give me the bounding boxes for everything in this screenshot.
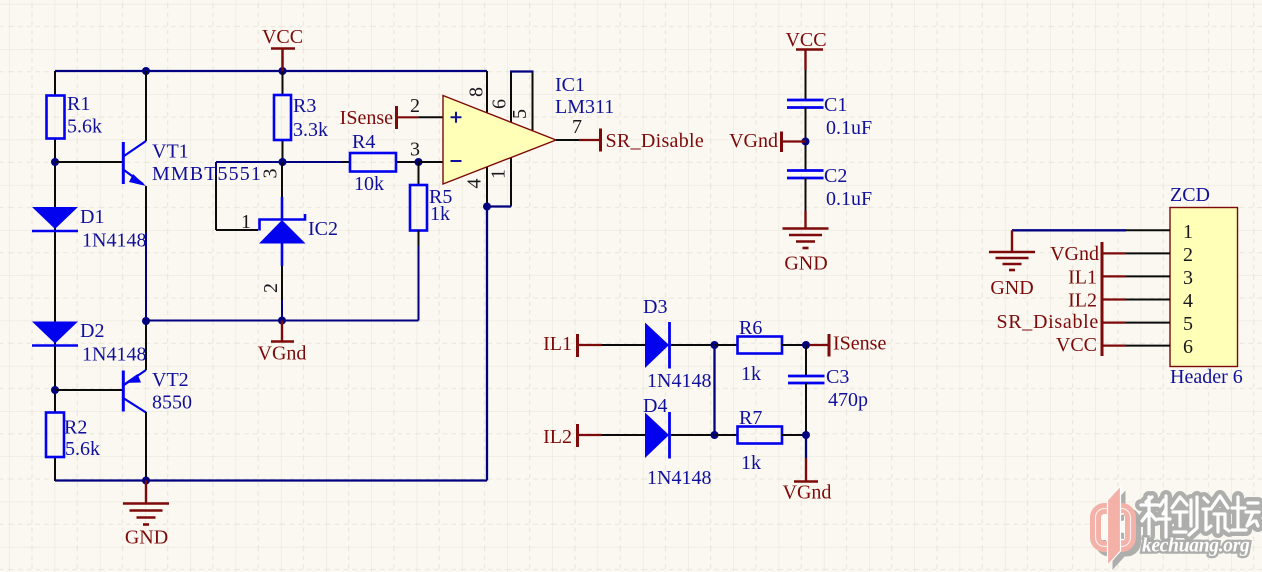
svg-text:8550: 8550 [152,392,192,414]
resistor R1 [47,93,103,139]
svg-text:5.6k: 5.6k [67,116,102,138]
watermark text kechuang forum [1141,496,1259,537]
node junction C1/C2/VGnd [802,138,810,146]
svg-text:R4: R4 [352,131,375,153]
svg-text:SR_Disable: SR_Disable [606,130,705,152]
svg-text:VCC: VCC [785,29,826,51]
diode D4 [602,395,715,489]
svg-text:R2: R2 [64,417,87,439]
node junction VT emitters row [142,317,150,325]
node junction R1/D1/VT1 base [51,158,59,166]
net label ISense (op-amp +) [340,106,419,129]
wire header pin1 to GND [1012,229,1126,231]
header net stubs [1104,253,1127,345]
wire bottom GND rail [55,479,487,481]
svg-text:8: 8 [466,87,488,97]
node junction R3/IC2/R4 [279,158,287,166]
transistor VT2 [55,321,192,481]
svg-text:1k: 1k [741,452,761,474]
node junction IC2 anode [278,317,286,325]
svg-text:ZCD: ZCD [1170,184,1210,206]
svg-text:5: 5 [509,109,531,119]
svg-text:kechuang.org: kechuang.org [1142,536,1250,557]
wire left column [54,71,56,481]
connector ZCD header box [1170,184,1243,388]
svg-text:2: 2 [260,283,282,293]
svg-text:GND: GND [990,277,1033,299]
op-amp IC1 triangle [443,74,614,189]
diode D2 [32,320,146,366]
node junction D4/R7 [711,431,719,439]
svg-text:IL2: IL2 [543,426,572,448]
svg-text:3.3k: 3.3k [293,119,328,141]
net label SR_Disable [579,129,704,153]
resistor R3 [274,71,328,162]
IC2 TL431 [241,162,338,321]
svg-text:VGnd: VGnd [729,130,778,152]
svg-text:ISense: ISense [340,107,393,129]
node junction top rail VT1 [142,67,150,75]
svg-text:C3: C3 [826,366,849,388]
svg-text:0.1uF: 0.1uF [826,188,872,210]
ground GND (left) [123,481,169,549]
svg-text:VGnd: VGnd [783,482,832,504]
svg-text:1k: 1k [430,203,450,225]
net label VGnd (middle) [729,130,805,152]
svg-text:2: 2 [410,95,420,117]
svg-text:C1: C1 [824,94,847,116]
svg-text:D4: D4 [643,395,667,417]
svg-text:IC1: IC1 [555,74,585,96]
svg-text:R1: R1 [67,93,90,115]
svg-text:VCC: VCC [1056,334,1097,356]
op-amp pins bottom [487,156,511,207]
resistor R5 [410,162,452,246]
wire to inverting input [419,161,444,163]
wire to non-inverting input [418,116,443,118]
svg-text:D1: D1 [80,206,104,228]
svg-text:3: 3 [260,169,282,179]
op-amp pins top [487,71,534,133]
wire op-amp gnd down to rail [486,207,488,481]
op-amp output pin 7 [556,116,582,140]
wire C1 to node [805,108,807,171]
svg-text:IL2: IL2 [1068,290,1097,312]
svg-text:D3: D3 [643,296,667,318]
watermark logo kechuang [1096,486,1136,570]
svg-text:R7: R7 [739,407,762,429]
svg-text:2: 2 [1183,244,1193,266]
resistor R6 [715,317,807,385]
resistor R4 [342,131,419,195]
wire D3 node to D4 node [713,345,715,435]
ground GND (right) [783,211,829,275]
svg-text:470p: 470p [828,389,868,411]
diode D3 [602,296,715,392]
svg-text:4: 4 [464,179,486,189]
node junction top rail VCC/R3 [279,67,287,75]
svg-text:10k: 10k [354,173,384,195]
wire C2 to GND [805,178,807,211]
svg-text:D2: D2 [80,320,104,342]
svg-text:1N4148: 1N4148 [82,230,146,252]
svg-text:VCC: VCC [262,26,303,48]
svg-text:VT1: VT1 [152,141,189,163]
power port VCC (right) [785,29,826,70]
ground GND (header) [989,230,1035,299]
svg-text:IL1: IL1 [543,333,572,355]
svg-text:1N4148: 1N4148 [647,370,711,392]
diode D1 [32,206,146,252]
capacitor C3 [788,345,868,435]
svg-text:VT2: VT2 [152,369,189,391]
svg-text:C2: C2 [824,165,847,187]
svg-text:6: 6 [489,99,511,109]
wire node3 to R4 [216,162,342,230]
node junction R4/R5/op-amp inverting [415,158,423,166]
svg-text:R3: R3 [293,95,316,117]
svg-text:1N4148: 1N4148 [82,344,146,366]
svg-text:4: 4 [1183,290,1193,312]
svg-text:1k: 1k [741,363,761,385]
power port VGnd (under IC2) [258,321,307,365]
wire VT1 emitter down [145,232,147,321]
svg-text:GND: GND [125,527,168,549]
svg-text:Header 6: Header 6 [1170,366,1243,388]
net label ISense (right) [810,333,886,357]
svg-text:6: 6 [1183,336,1193,358]
svg-text:IC2: IC2 [308,218,338,240]
wire top VCC rail [55,70,487,72]
svg-text:VGnd: VGnd [258,343,307,365]
wire VCC to C1 [805,70,807,99]
svg-text:1: 1 [1183,221,1193,243]
node junction R6/C3/ISense [802,341,810,349]
header pin wires [1126,230,1170,345]
svg-text:IL1: IL1 [1068,267,1097,289]
node junction op-amp gnd [483,203,491,211]
net label IL2 [543,424,601,448]
node junction R7/C3/VGnd [802,431,810,439]
svg-text:1N4148: 1N4148 [647,467,711,489]
net label IL1 [543,333,601,357]
svg-text:3: 3 [1183,267,1193,289]
svg-text:5.6k: 5.6k [65,438,100,460]
capacitor C2 [787,165,872,210]
capacitor C1 [787,94,872,139]
svg-text:VGnd: VGnd [1050,243,1099,265]
svg-text:1: 1 [488,169,510,179]
svg-text:R6: R6 [739,317,762,339]
node junction D3/R6 [711,341,719,349]
svg-text:MMBT5551: MMBT5551 [152,163,262,185]
svg-text:ISense: ISense [833,333,886,355]
node junction bottom rail GND [142,477,150,485]
svg-text:5: 5 [1183,313,1193,335]
resistor R2 [46,413,100,461]
wire collector node row [146,246,419,321]
svg-text:GND: GND [784,253,827,275]
node junction D2/R2/VT2 base [51,386,59,394]
svg-text:3: 3 [410,139,420,161]
power port VGnd (bottom) [783,435,832,504]
resistor R7 [715,407,807,474]
svg-text:1: 1 [241,211,251,233]
transistor VT1 [55,71,262,232]
svg-text:SR_Disable: SR_Disable [996,311,1099,333]
net label ticks column [1101,242,1104,356]
power port VCC (left) [262,26,303,71]
svg-text:LM311: LM311 [555,96,614,118]
svg-text:7: 7 [572,116,582,138]
svg-text:0.1uF: 0.1uF [826,117,872,139]
